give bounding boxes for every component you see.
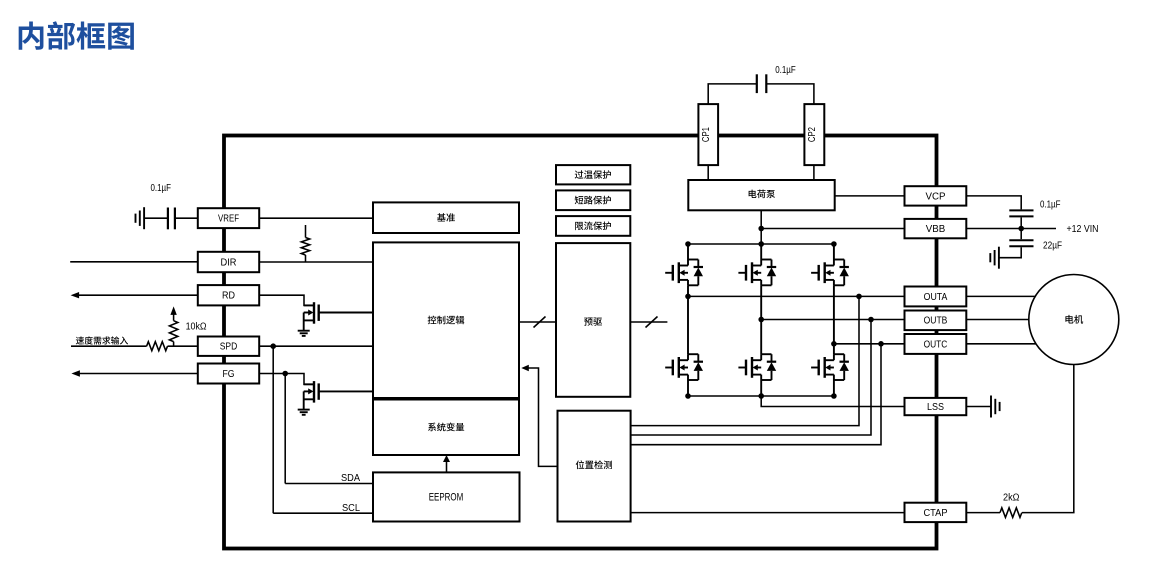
- pin VREF: [198, 208, 259, 228]
- node SPD-SCL: [270, 343, 276, 349]
- node btm A: [685, 393, 691, 399]
- transistor M3 high-side C: [811, 272, 819, 274]
- wire VREF to 基准: [259, 217, 373, 219]
- transistor Q1 RD clamp: [313, 302, 315, 324]
- pin OUTB: [905, 311, 967, 331]
- wire FG to clamp: [259, 374, 314, 385]
- capacitor 0.1uF VREF: [167, 208, 169, 230]
- ground 22uF: [998, 247, 1000, 269]
- wire phase A: [688, 295, 905, 297]
- label speed input 速度需求输入: [76, 336, 84, 344]
- svg-text:0.1µF: 0.1µF: [151, 183, 172, 194]
- block 过温保护: [556, 165, 630, 184]
- block 控制逻辑: [373, 242, 519, 398]
- svg-text:SCL: SCL: [342, 503, 360, 514]
- pin CP1: [698, 104, 718, 165]
- node btm B: [758, 393, 764, 399]
- pin SPD: [198, 337, 259, 356]
- ground VREF: [143, 207, 145, 229]
- svg-text:EEPROM: EEPROM: [429, 492, 464, 504]
- wire OUTA to motor: [966, 295, 1035, 297]
- node phase C: [831, 341, 837, 347]
- wire cap-VREF: [175, 217, 198, 219]
- node fb C: [878, 341, 884, 347]
- svg-text:VBB: VBB: [926, 224, 946, 235]
- wire feedback posdet to logic: [529, 368, 558, 466]
- block 短路保护: [556, 190, 630, 210]
- node rail A: [685, 241, 691, 247]
- node fb A: [856, 294, 862, 300]
- wire LSS to gnd: [966, 406, 991, 408]
- pin OUTC: [905, 334, 967, 354]
- arrow EEPROM to 系统变量: [446, 462, 448, 473]
- svg-text:SPD: SPD: [220, 342, 238, 353]
- pin CP2: [804, 104, 824, 165]
- svg-text:VCP: VCP: [926, 191, 946, 202]
- pin OUTA: [905, 287, 967, 307]
- transistor M5 low-side B: [738, 367, 746, 369]
- capacitor 0.1uF VCP: [1009, 209, 1033, 211]
- wire FG output: [71, 370, 80, 376]
- pin LSS: [905, 398, 967, 415]
- svg-text:RD: RD: [222, 291, 235, 302]
- svg-text:OUTB: OUTB: [924, 316, 948, 327]
- resistor DIR pulldown: [305, 225, 307, 238]
- pin DIR: [198, 252, 259, 272]
- wire SDA: [285, 483, 373, 485]
- block 位置检测: [558, 411, 631, 522]
- svg-text:FG: FG: [223, 369, 235, 380]
- wire CP2 bottom to charge pump: [813, 165, 815, 180]
- wire col B mid: [760, 285, 762, 354]
- wire fb B down: [631, 320, 871, 436]
- pin VCP: [905, 186, 967, 205]
- svg-text:OUTA: OUTA: [924, 292, 948, 303]
- node btm C: [831, 393, 837, 399]
- capacitor 22uF: [1009, 239, 1033, 241]
- wire SPD down to SCL: [272, 346, 274, 513]
- wire VBB to bridge: [761, 228, 904, 230]
- wire phase C: [834, 343, 905, 345]
- node phase A: [685, 294, 691, 300]
- wire col B bottom: [760, 380, 762, 396]
- chip outline: [224, 136, 937, 549]
- wire col B top: [760, 244, 762, 260]
- resistor SPD series: [147, 342, 168, 351]
- wire DIR input: [70, 261, 198, 263]
- bus slash 1: [534, 317, 546, 328]
- title 内部框图: [19, 21, 44, 49]
- motor 电机: [1029, 275, 1119, 365]
- wire CP1 top to cap: [708, 84, 756, 104]
- wire phase B: [761, 319, 904, 321]
- block 限流保护: [556, 216, 630, 236]
- wire OUTB to motor: [966, 319, 1029, 321]
- wire resistor to CTAP: [966, 512, 1000, 514]
- bus logic to predrive: [519, 321, 556, 323]
- wire SCL: [273, 512, 373, 514]
- wire col C top: [833, 244, 835, 260]
- wire charge pump bottom to bridge rail: [760, 210, 762, 244]
- svg-text:DIR: DIR: [221, 257, 237, 268]
- wire VCP to cap: [966, 196, 1021, 210]
- wire fb C down: [631, 344, 881, 445]
- resistor 2k: [1000, 508, 1022, 518]
- wire col C mid: [833, 285, 835, 354]
- wire SPD to logic: [259, 345, 373, 347]
- node VBB tee: [758, 226, 764, 232]
- wire Q1 gate to logic: [319, 312, 373, 314]
- block charge pump 电荷泵: [688, 180, 834, 210]
- bus slash 2: [646, 317, 658, 328]
- wire FG down to SDA: [284, 374, 286, 484]
- svg-text:+12 VIN: +12 VIN: [1067, 224, 1099, 235]
- node phase B: [758, 317, 764, 323]
- pin CTAP: [905, 503, 967, 522]
- wire VBB to +12 VIN: [966, 228, 1056, 230]
- block 系统变量: [373, 400, 519, 456]
- wire col C bottom: [833, 380, 835, 396]
- transistor M4 low-side A: [665, 367, 673, 369]
- wire motor to CTAP resistor: [1022, 365, 1074, 513]
- wire cap to VBB node: [1020, 217, 1022, 228]
- wire charge pump to VCP: [835, 195, 905, 197]
- transistor M6 low-side C: [811, 367, 819, 369]
- svg-text:CP2: CP2: [806, 127, 818, 142]
- wire gnd-cap: [144, 217, 168, 219]
- node +12VIN tee: [1018, 226, 1024, 232]
- pin FG: [198, 364, 259, 384]
- wire col A mid: [687, 285, 689, 354]
- svg-text:CP1: CP1: [700, 127, 712, 142]
- svg-text:CTAP: CTAP: [924, 508, 948, 519]
- wire OUTC to motor: [966, 343, 1036, 345]
- svg-text:VREF: VREF: [218, 214, 239, 225]
- resistor 10k pullup: [170, 306, 176, 315]
- svg-text:0.1µF: 0.1µF: [1040, 200, 1061, 211]
- svg-text:OUTC: OUTC: [924, 339, 948, 350]
- svg-text:22µF: 22µF: [1043, 241, 1062, 252]
- wire DIR to logic: [259, 261, 373, 263]
- transistor M1 high-side A: [665, 272, 673, 274]
- wire RD to clamp: [259, 295, 314, 305]
- block 基准: [373, 202, 519, 233]
- wire CP1 bottom to charge pump: [707, 165, 709, 180]
- wire Q2 gate to logic: [319, 390, 373, 392]
- pin VBB: [905, 219, 967, 238]
- node rail C: [831, 241, 837, 247]
- node FG-SDA: [282, 371, 288, 377]
- wire RD output: [71, 292, 80, 298]
- wire 22uF to gnd: [999, 247, 1021, 258]
- transistor M2 high-side B: [738, 272, 746, 274]
- wire cap to CP2 top: [767, 84, 814, 104]
- node fb B: [868, 317, 874, 323]
- svg-text:SDA: SDA: [341, 473, 360, 484]
- ground Q2: [298, 409, 310, 411]
- ground Q1: [298, 330, 310, 332]
- wire fb A down: [631, 296, 859, 425]
- capacitor 0.1uF top: [756, 74, 758, 93]
- svg-text:2kΩ: 2kΩ: [1003, 493, 1020, 504]
- bus predrive to bridge: [630, 321, 667, 323]
- wire bridge top rail: [688, 243, 834, 245]
- wire LSS from rail: [761, 396, 904, 407]
- node rail B: [758, 241, 764, 247]
- svg-text:LSS: LSS: [927, 402, 944, 413]
- svg-text:0.1µF: 0.1µF: [775, 65, 796, 76]
- block EEPROM: [373, 472, 520, 521]
- transistor Q2 FG clamp: [313, 381, 315, 403]
- block 预驱: [556, 243, 630, 397]
- pin RD: [198, 285, 259, 305]
- wire col A bottom: [687, 380, 689, 396]
- wire bridge bottom rail: [688, 395, 834, 397]
- wire SPD input: [71, 345, 147, 347]
- ground LSS: [990, 396, 992, 418]
- wire CTAP: [631, 512, 905, 514]
- wire node to 22uF: [1020, 229, 1022, 240]
- wire col A top: [687, 244, 689, 260]
- svg-text:10kΩ: 10kΩ: [186, 322, 207, 333]
